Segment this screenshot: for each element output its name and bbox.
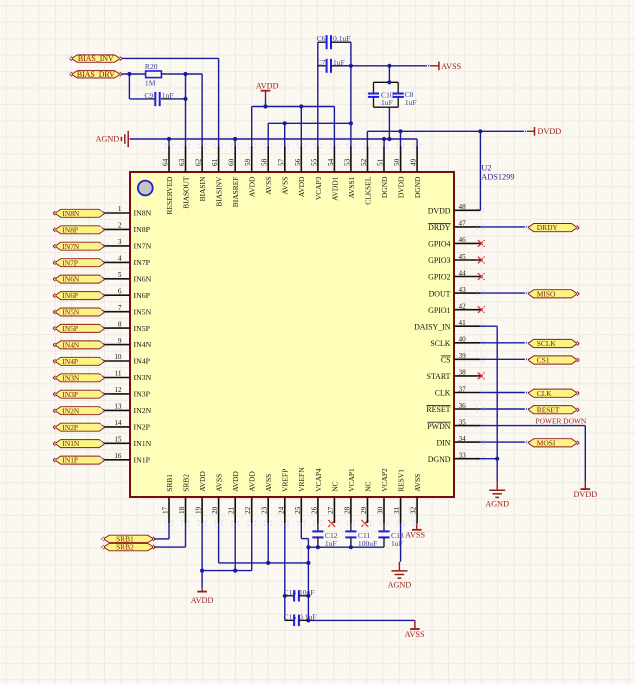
svg-text:12: 12 [114,386,122,394]
svg-text:56: 56 [294,158,302,166]
svg-text:IN3P: IN3P [62,390,78,399]
svg-text:15: 15 [114,436,122,444]
svg-text:DGND: DGND [428,455,451,464]
svg-text:57: 57 [277,158,285,166]
svg-text:28: 28 [343,506,351,514]
svg-text:24: 24 [277,506,285,514]
svg-text:IN4P: IN4P [134,357,151,366]
svg-text:C7: C7 [317,58,326,67]
svg-text:C15: C15 [284,613,297,622]
svg-text:4: 4 [118,255,122,263]
svg-text:R20: R20 [145,62,158,71]
svg-text:IN2N: IN2N [134,406,152,415]
svg-text:IN5P: IN5P [62,324,78,333]
svg-text:40: 40 [459,336,467,344]
svg-text:AVSS: AVSS [281,177,290,195]
svg-text:33: 33 [459,452,467,460]
svg-text:0.1uF: 0.1uF [333,34,351,43]
svg-text:36: 36 [459,402,467,410]
svg-text:CS: CS [441,356,451,365]
svg-text:AVDD: AVDD [248,471,257,492]
svg-text:IN5N: IN5N [134,307,152,316]
svg-text:IN5N: IN5N [62,308,79,317]
svg-text:DIN: DIN [436,438,450,447]
svg-text:1M: 1M [145,79,156,88]
svg-text:16: 16 [114,452,122,460]
svg-text:U2: U2 [481,164,491,173]
svg-text:NC: NC [363,481,372,491]
svg-text:1: 1 [118,205,122,213]
svg-text:IN3N: IN3N [62,373,79,382]
svg-text:IN8N: IN8N [62,209,79,218]
svg-text:9: 9 [118,337,122,345]
svg-text:50: 50 [393,158,401,166]
svg-text:POWER DOWN: POWER DOWN [536,417,587,426]
svg-text:2: 2 [118,222,122,230]
svg-text:11: 11 [115,370,122,378]
svg-text:BIAS_INV: BIAS_INV [78,54,114,63]
svg-text:45: 45 [459,253,467,261]
svg-text:IN4P: IN4P [62,357,78,366]
svg-text:29: 29 [360,506,368,514]
svg-text:SRB2: SRB2 [116,543,134,552]
svg-text:START: START [427,372,451,381]
svg-text:BIAS_DRV: BIAS_DRV [77,70,115,79]
svg-text:BIASIN: BIASIN [198,176,207,201]
svg-text:61: 61 [211,158,219,166]
svg-text:C9: C9 [144,91,153,100]
svg-text:AVSS1: AVSS1 [347,176,356,198]
svg-text:42: 42 [459,303,467,311]
svg-text:44: 44 [459,269,467,277]
svg-text:62: 62 [195,158,203,166]
svg-text:IN8N: IN8N [134,209,152,218]
svg-text:VCAP2: VCAP2 [380,468,389,492]
svg-text:IN7N: IN7N [62,242,79,251]
svg-text:BIASREF: BIASREF [231,177,240,208]
svg-text:DVDD: DVDD [428,207,451,216]
svg-text:SCLK: SCLK [537,339,557,348]
svg-text:AVDD: AVDD [297,176,306,197]
svg-text:CLKSEL: CLKSEL [363,176,372,205]
svg-text:30: 30 [377,506,385,514]
svg-text:27: 27 [327,506,335,514]
svg-text:AVDD: AVDD [256,82,279,91]
svg-text:IN8P: IN8P [134,225,151,234]
svg-text:IN4N: IN4N [62,341,79,350]
svg-text:IN8P: IN8P [62,225,78,234]
svg-text:22: 22 [244,506,252,514]
svg-text:DVDD: DVDD [573,490,597,499]
svg-text:RESET: RESET [426,405,450,414]
svg-text:BIASOUT: BIASOUT [181,176,190,209]
svg-text:CS1: CS1 [537,356,550,365]
svg-text:14: 14 [114,419,122,427]
svg-text:AVSS: AVSS [264,474,273,492]
svg-text:IN1P: IN1P [62,456,78,465]
svg-text:19: 19 [195,506,203,514]
svg-text:AVDD: AVDD [191,596,214,605]
svg-text:DVDD: DVDD [397,176,406,198]
svg-text:MOSI: MOSI [537,438,556,447]
svg-text:7: 7 [118,304,122,312]
svg-text:64: 64 [162,158,170,166]
svg-text:49: 49 [410,158,418,166]
svg-text:58: 58 [261,158,269,166]
svg-text:DRDY: DRDY [537,223,559,232]
svg-text:8: 8 [118,320,122,328]
svg-text:37: 37 [459,385,467,393]
svg-text:MISO: MISO [537,289,556,298]
svg-text:1uF: 1uF [381,98,393,107]
svg-text:IN3N: IN3N [134,373,152,382]
svg-text:RESERVED: RESERVED [165,176,174,214]
svg-text:51: 51 [377,158,385,166]
svg-text:59: 59 [244,158,252,166]
svg-text:52: 52 [360,158,368,166]
svg-text:IN2P: IN2P [62,423,78,432]
svg-text:C6: C6 [317,34,326,43]
svg-text:23: 23 [261,506,269,514]
svg-text:VCAP4: VCAP4 [314,468,323,492]
svg-text:54: 54 [327,158,335,166]
svg-text:63: 63 [178,158,186,166]
svg-text:DVDD: DVDD [538,127,562,136]
svg-text:46: 46 [459,236,467,244]
svg-text:AVSS: AVSS [405,630,425,639]
svg-text:AVSS: AVSS [405,531,425,540]
svg-text:PWDN: PWDN [427,422,451,431]
svg-text:IN5P: IN5P [134,324,151,333]
svg-text:IN7P: IN7P [62,258,78,267]
svg-text:31: 31 [393,506,401,514]
svg-text:AVSS: AVSS [215,474,224,492]
svg-text:32: 32 [410,506,418,514]
svg-text:AVSS: AVSS [264,177,273,195]
svg-text:34: 34 [459,435,467,443]
svg-text:CLK: CLK [435,389,451,398]
svg-text:1nF: 1nF [162,91,174,100]
svg-text:35: 35 [459,418,467,426]
svg-text:39: 39 [459,352,467,360]
svg-text:VREFP: VREFP [281,469,290,492]
svg-text:IN6P: IN6P [134,291,151,300]
svg-text:GPIO2: GPIO2 [428,273,450,282]
svg-text:IN1P: IN1P [134,455,151,464]
svg-text:DRDY: DRDY [428,223,451,232]
svg-text:43: 43 [459,286,467,294]
svg-text:CLK: CLK [537,389,552,398]
svg-text:AGND: AGND [96,135,120,144]
svg-text:VREFN: VREFN [297,467,306,492]
svg-text:C14: C14 [284,588,297,597]
svg-text:5: 5 [118,271,122,279]
svg-text:DOUT: DOUT [429,289,451,298]
svg-text:17: 17 [162,506,170,514]
svg-text:AGND: AGND [485,500,509,509]
svg-text:10uF: 10uF [299,588,315,597]
svg-text:3: 3 [118,238,122,246]
svg-text:53: 53 [343,158,351,166]
svg-text:1uF: 1uF [405,98,417,107]
svg-text:VCAP1: VCAP1 [347,468,356,492]
svg-text:ADS1299: ADS1299 [481,173,514,182]
svg-text:GPIO4: GPIO4 [428,240,450,249]
svg-text:AVDD: AVDD [248,176,257,197]
svg-text:AVDD: AVDD [231,471,240,492]
svg-text:IN6N: IN6N [62,275,79,284]
svg-text:IN2P: IN2P [134,423,151,432]
svg-text:DAISY_IN: DAISY_IN [414,322,451,331]
svg-text:38: 38 [459,369,467,377]
svg-text:AVSS: AVSS [413,474,422,492]
svg-text:SRB1: SRB1 [165,474,174,492]
svg-text:IN1N: IN1N [62,439,79,448]
svg-text:AGND: AGND [388,580,412,589]
svg-text:IN3P: IN3P [134,390,151,399]
svg-text:13: 13 [114,403,122,411]
svg-text:41: 41 [459,319,467,327]
svg-text:10: 10 [114,353,122,361]
svg-text:GPIO3: GPIO3 [428,256,450,265]
svg-text:48: 48 [459,203,467,211]
svg-text:IN6N: IN6N [134,274,152,283]
svg-text:IN7N: IN7N [134,242,152,251]
svg-text:IN2N: IN2N [62,406,79,415]
svg-text:IN4N: IN4N [134,340,152,349]
svg-text:SRB2: SRB2 [181,474,190,492]
svg-text:21: 21 [228,506,236,514]
svg-text:55: 55 [310,158,318,166]
svg-text:RESV1: RESV1 [397,469,406,492]
svg-text:RESET: RESET [537,405,560,414]
svg-text:18: 18 [178,506,186,514]
svg-text:25: 25 [294,506,302,514]
svg-text:47: 47 [459,220,467,228]
svg-text:6: 6 [118,287,122,295]
svg-text:VCAP3: VCAP3 [314,176,323,200]
svg-text:AVDD1: AVDD1 [330,176,339,201]
svg-text:IN6P: IN6P [62,291,78,300]
svg-text:SCLK: SCLK [430,339,450,348]
svg-text:DGND: DGND [380,176,389,198]
svg-text:26: 26 [310,506,318,514]
svg-text:20: 20 [211,506,219,514]
svg-text:GPIO1: GPIO1 [428,306,450,315]
svg-text:IN1N: IN1N [134,439,152,448]
svg-text:60: 60 [228,158,236,166]
svg-text:NC: NC [330,481,339,491]
svg-text:IN7P: IN7P [134,258,151,267]
svg-text:AVDD: AVDD [198,471,207,492]
svg-text:DGND: DGND [413,176,422,198]
svg-text:BIASINV: BIASINV [215,176,224,207]
svg-text:AVSS: AVSS [441,62,461,71]
